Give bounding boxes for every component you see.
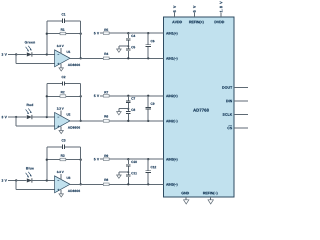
label C3 (62, 139, 66, 141)
label Blue (26, 167, 34, 169)
resistor R3 (60, 158, 66, 161)
label C10 (131, 161, 136, 163)
resistor R5 (103, 32, 109, 35)
label R1 (61, 28, 65, 30)
capacitor C12 (145, 171, 151, 173)
capacitor C11 (126, 175, 131, 177)
wire U3 output to AIN3(-) (70, 183, 164, 185)
pin DOUT (222, 86, 232, 88)
wire C10 vertical (127, 159, 129, 175)
pin REFIN(+) (189, 21, 203, 24)
wire photodiode to U1 inverting input (32, 53, 55, 55)
label R6 (104, 115, 108, 117)
junction mid node channel 1 (127, 45, 129, 47)
junctions C12 (147, 158, 149, 185)
pin REFIN(−) (203, 192, 217, 195)
capacitor C10 (126, 164, 131, 166)
wire feedback right vertical channel 3 (80, 147, 82, 185)
capacitor C7 (126, 101, 131, 103)
label R7 (104, 91, 108, 93)
ground symbol filter channel 2 (117, 112, 122, 115)
wire feedback right vertical channel 1 (80, 21, 82, 59)
wire pin DOUT (234, 87, 248, 89)
junctions on feedback resistor wire channel 2 (46, 95, 82, 97)
ADC AD7768 IC body (164, 17, 235, 197)
junction feedback tap channel 2 (46, 116, 48, 118)
capacitor C3 (62, 145, 64, 149)
wire C5 to bottom rail (127, 51, 129, 59)
node 5V supply channel 2 (94, 95, 99, 97)
wire 3V feed channel 3 (8, 179, 16, 181)
node 3V supply channel 1 (2, 53, 7, 55)
capacitor C8 (126, 112, 131, 114)
wire REFIN(+) supply (193, 13, 195, 17)
label AD8606 channel 1 (68, 64, 80, 66)
pin GND (181, 192, 189, 195)
label C7 (131, 97, 135, 99)
junctions C9 (147, 95, 149, 122)
junction bottom rail C5 (127, 57, 129, 59)
wire DVDD supply (220, 13, 222, 17)
ground stub U1 (60, 64, 62, 68)
wire feedback left vertical channel 3 (46, 147, 48, 181)
pin DVDD (215, 21, 225, 23)
wire mid node to ground channel 2 (119, 109, 128, 112)
label C11 (131, 172, 137, 174)
ground stub U2 (60, 127, 62, 131)
light arrows into D2 (26, 108, 32, 114)
op-amp U2 AD8606 (55, 113, 70, 130)
node 5V supply channel 1 (94, 32, 99, 34)
junction 3V split channel 3 (15, 179, 17, 181)
op-amp U3 AD8606 (55, 176, 70, 193)
wire pin CS (234, 127, 248, 129)
junction feedback to output channel 2 (80, 120, 82, 122)
junctions on feedback resistor wire channel 1 (46, 33, 82, 35)
wire C6 vertical (147, 33, 149, 58)
ground symbol REFIN(−) (208, 200, 213, 204)
op-amp U1 AD8606 (55, 50, 70, 67)
resistor R6 (103, 120, 109, 123)
resistor R1 (60, 32, 66, 35)
resistor R2 (60, 95, 66, 98)
label C2 (62, 76, 66, 78)
wire C8 to bottom rail (127, 113, 129, 121)
ground symbol filter channel 3 (117, 175, 122, 178)
wire feedback cap branch channel 3 (47, 146, 81, 148)
label 1.8 V supply DVDD (220, 1, 223, 12)
junctions C6 (147, 32, 149, 59)
power stub U2 (60, 110, 62, 116)
wire pin SCLK (234, 114, 248, 116)
wire mid node to ground channel 3 (119, 172, 128, 175)
ground stub U3 (60, 190, 62, 194)
node 3V supply channel 2 (2, 116, 7, 118)
capacitor C9 (145, 107, 151, 109)
pin CS (227, 126, 232, 129)
junction 3V split channel 2 (15, 116, 17, 118)
wire feedback right vertical channel 2 (80, 83, 82, 121)
wire 3V to photodiode D2 anode (16, 116, 27, 118)
label AD8606 channel 3 (68, 190, 80, 192)
junction top rail C4 (127, 32, 129, 34)
wire feedback cap branch channel 2 (47, 82, 81, 84)
wire feedback left vertical channel 1 (46, 21, 48, 55)
ground symbol U3 (59, 194, 63, 197)
label 3.3V supply U2 (57, 107, 64, 109)
wire pin DIN (234, 100, 248, 102)
pin AVDD (172, 21, 182, 23)
label U3 (67, 177, 71, 179)
wire mid node to ground channel 1 (119, 46, 128, 49)
wire U2 output to AIN2(-) (70, 120, 164, 122)
label C6 (151, 40, 155, 42)
junction feedback tap channel 1 (46, 53, 48, 55)
label C1 (62, 13, 66, 15)
label C8 (131, 109, 135, 111)
ground symbol U2 (59, 131, 63, 134)
capacitor C5 (126, 49, 131, 51)
label R3 (61, 154, 65, 156)
pin AIN3(+) (166, 158, 177, 161)
wire feedback resistor branch channel 3 (47, 159, 81, 161)
junction 3V split channel 1 (15, 53, 17, 55)
label AD7768 (193, 109, 209, 112)
junction bottom rail C11 (127, 183, 129, 185)
capacitor C2 (62, 81, 64, 85)
junction mid node channel 2 (127, 108, 129, 110)
wire 3V feed channel 2 (8, 116, 16, 118)
resistor R9 (103, 158, 109, 161)
photodiode D2 (Red) (27, 115, 32, 119)
wire 5V rail to AIN1(+) (100, 32, 164, 34)
wire C7 vertical (127, 96, 129, 112)
capacitor C1 (62, 19, 64, 23)
pin AIN3(−) (166, 183, 177, 186)
pin AIN1(−) (166, 57, 177, 60)
label Green (25, 41, 35, 43)
label C5 (131, 46, 135, 48)
wire 3V feed channel 1 (8, 53, 16, 55)
wire to op-amp U3 non-inverting input (16, 180, 54, 189)
label C9 (151, 103, 155, 105)
wire feedback left vertical channel 2 (46, 83, 48, 117)
junction top rail C10 (127, 158, 129, 160)
wire C9 vertical (147, 96, 149, 121)
wire feedback resistor branch channel 2 (47, 95, 81, 97)
ground symbol GND (184, 200, 189, 204)
wire C12 vertical (147, 159, 149, 184)
label Red (27, 104, 33, 106)
label U1 (67, 51, 71, 53)
photodiode D1 (Green) (27, 52, 32, 56)
junction top rail C7 (127, 95, 129, 97)
light arrows into D3 (26, 172, 32, 178)
wire 3V to photodiode D3 anode (16, 179, 27, 181)
wire C4 vertical (127, 33, 129, 49)
junction feedback to output channel 3 (80, 183, 82, 185)
wire 3V to photodiode D1 anode (16, 53, 27, 55)
pin DIN (226, 100, 232, 102)
wire to op-amp U2 non-inverting input (16, 117, 54, 126)
pin AIN1(+) (166, 32, 177, 35)
junction bottom rail C8 (127, 120, 129, 122)
power stub U3 (60, 174, 62, 180)
wire photodiode to U2 inverting input (32, 116, 55, 118)
ground symbol U1 (59, 68, 63, 71)
label C12 (151, 166, 156, 168)
label C4 (131, 35, 135, 37)
label 5 V supply AVDD (173, 6, 176, 13)
node 3V supply channel 3 (2, 179, 7, 181)
wire 5V rail to AIN3(+) (100, 158, 164, 160)
wire REFIN(−) to ground (210, 197, 212, 200)
resistor R4 (103, 57, 109, 60)
wire feedback resistor branch channel 1 (47, 33, 81, 35)
wire C11 to bottom rail (127, 177, 129, 185)
pin AIN2(+) (166, 95, 177, 98)
photodiode D3 (Blue) (27, 178, 32, 182)
label R4 (104, 53, 108, 55)
node 5V supply channel 3 (94, 158, 99, 160)
junction mid node channel 3 (127, 171, 129, 173)
capacitor C4 (126, 38, 131, 40)
resistor R7 (103, 95, 109, 98)
label 5 V supply REFIN(+) (193, 6, 196, 13)
wire 5V rail to AIN2(+) (100, 95, 164, 97)
ground symbol filter channel 1 (117, 49, 122, 52)
label R5 (104, 29, 108, 31)
pin SCLK (223, 113, 233, 115)
light arrows into D1 (26, 46, 32, 52)
capacitor C6 (145, 45, 151, 47)
pin AIN2(−) (166, 120, 177, 123)
wire feedback cap branch channel 1 (47, 20, 81, 22)
junction feedback tap channel 3 (46, 179, 48, 181)
junction feedback to output channel 1 (80, 57, 82, 59)
resistor R8 (103, 183, 109, 186)
label R9 (104, 155, 108, 157)
label R8 (104, 179, 108, 181)
junctions on feedback resistor wire channel 3 (46, 159, 82, 161)
wire photodiode to U3 inverting input (32, 179, 55, 181)
label AD8606 channel 2 (68, 126, 80, 128)
wire GND to ground (185, 197, 187, 200)
label 3.3V supply U3 (57, 171, 64, 173)
wire AVDD supply (174, 13, 176, 17)
label 3.3V supply U1 (57, 45, 64, 47)
label U2 (67, 113, 71, 115)
power stub U1 (60, 48, 62, 54)
wire U1 output to AIN1(-) (70, 57, 164, 59)
wire to op-amp U1 non-inverting input (16, 54, 54, 63)
label R2 (61, 91, 65, 93)
